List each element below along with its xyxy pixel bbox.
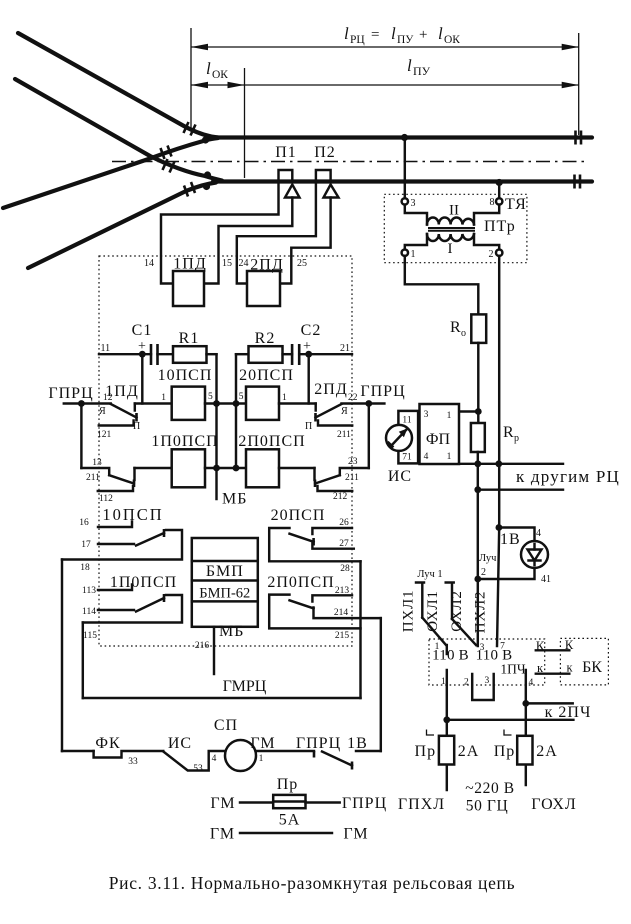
common bracket row4 left (pin 115): [83, 595, 182, 623]
svg-text:12: 12: [103, 393, 113, 403]
svg-text:C1: C1: [132, 322, 153, 339]
svg-text:БК: БК: [582, 659, 602, 676]
svg-text:2А: 2А: [458, 743, 480, 760]
common bracket row4 right: [269, 595, 360, 629]
junction dot frog A2: [204, 171, 211, 178]
contact t27: [312, 544, 353, 549]
svg-text:ГМ: ГМ: [250, 735, 275, 752]
svg-text:215: 215: [335, 631, 350, 641]
jumper pins 2-3: [472, 674, 494, 700]
contact t16: [98, 522, 132, 528]
contact 1ПД armature: [111, 404, 137, 418]
svg-text:К: К: [565, 638, 574, 652]
wire lamp branch: [499, 528, 535, 542]
svg-text:11: 11: [101, 343, 111, 354]
svg-text:ГОХЛ: ГОХЛ: [531, 796, 577, 813]
svg-text:ОХЛ1: ОХЛ1: [425, 590, 441, 631]
insulated joint on B2: [184, 182, 195, 197]
svg-text:211: 211: [337, 430, 351, 440]
svg-text:121: 121: [97, 430, 112, 440]
wire 20ПСП pin1 right: [279, 402, 316, 404]
svg-text:1: 1: [282, 393, 287, 403]
wire К-К 2: [536, 672, 570, 674]
resistor Ro: [471, 314, 486, 343]
svg-text:ГМ: ГМ: [343, 826, 368, 843]
rail connection П2 staple: [316, 170, 331, 181]
switch machine СП: [225, 740, 256, 771]
svg-text:ИС: ИС: [388, 468, 412, 485]
wire 1П0ПСП to buses to 2П0ПСП: [205, 467, 246, 469]
svg-text:114: 114: [82, 607, 96, 617]
svg-text:214: 214: [334, 608, 349, 618]
svg-text:5: 5: [239, 392, 244, 402]
svg-text:10ПСП: 10ПСП: [158, 367, 213, 384]
svg-text:27: 27: [339, 539, 349, 549]
row2: contact 10ПСП left: [81, 468, 109, 475]
svg-text:I: I: [448, 241, 453, 257]
svg-text:41: 41: [541, 574, 551, 585]
svg-text:71: 71: [402, 453, 412, 463]
svg-text:ГПРЦ: ГПРЦ: [360, 383, 405, 400]
svg-text:К: К: [536, 639, 545, 653]
winding II: [427, 218, 474, 225]
contact arm to pin 1: [422, 618, 446, 645]
svg-text:Я: Я: [341, 406, 348, 417]
wire pin11 to C1: [99, 353, 151, 355]
wire C2 column down: [307, 354, 309, 403]
svg-text:=: =: [371, 27, 379, 43]
svg-text:1В: 1В: [347, 735, 368, 752]
bus МБ2: [235, 354, 237, 468]
svg-text:ГПРЦ: ГПРЦ: [48, 385, 93, 402]
svg-text:к: к: [566, 661, 573, 675]
rail lower (converged track): [213, 179, 592, 183]
wire to 1П0ПСП: [135, 467, 172, 469]
svg-text:БМП: БМП: [206, 563, 244, 580]
fuse Пр 2А right: [517, 736, 532, 765]
contact 2ПД armature: [316, 404, 342, 418]
dimension line lОК: [191, 84, 245, 86]
contact t26: [312, 528, 352, 534]
svg-text:22: 22: [348, 393, 358, 403]
svg-text:1: 1: [441, 677, 446, 687]
svg-text:3: 3: [424, 410, 429, 420]
terminal 8: [496, 198, 502, 204]
wire ФП pin1 to node: [459, 410, 478, 412]
contact 1ПД front terminal: [134, 404, 136, 411]
svg-text:4: 4: [212, 754, 217, 764]
svg-text:П: П: [305, 421, 312, 432]
svg-text:20ПСП: 20ПСП: [239, 367, 294, 384]
wire C1 column down: [141, 354, 143, 403]
svg-text:1: 1: [411, 249, 416, 260]
svg-text:211: 211: [86, 473, 100, 483]
main rail B2 (lowest diagonal): [28, 183, 216, 269]
svg-text:ФК: ФК: [95, 735, 120, 752]
svg-text:26: 26: [339, 518, 349, 528]
svg-text:R: R: [450, 319, 462, 336]
wire row3-right common down to ГМРЦ wire: [359, 561, 361, 698]
wire 10ПСП to buses to 20ПСП: [205, 402, 246, 404]
svg-text:~220 В: ~220 В: [465, 780, 514, 797]
svg-text:ГМ: ГМ: [210, 826, 235, 843]
common bracket row3 right: [269, 528, 360, 561]
svg-text:112: 112: [99, 494, 113, 504]
svg-text:l: l: [438, 24, 443, 43]
common bracket row3 left (pin 18): [62, 530, 182, 560]
svg-text:1П0ПСП: 1П0ПСП: [110, 574, 177, 591]
insulated joint lower rail right end: [575, 175, 581, 189]
meter ИС: [386, 425, 412, 451]
svg-text:ОК: ОК: [444, 34, 460, 46]
svg-text:211: 211: [345, 473, 359, 483]
wire row4-left common down: [82, 623, 84, 699]
dimension line lРЦ: [191, 46, 579, 48]
wire П1 left leg to pin 14: [161, 182, 279, 284]
relay cabinet dotted enclosure: [99, 256, 352, 646]
meter ИС box: [398, 411, 418, 464]
wire ГПРЦ left down to row2: [80, 404, 82, 469]
main rail B1 (lower-left diagonal up to upper rail): [3, 138, 218, 208]
wire Ro to node: [477, 343, 479, 423]
node ГПРЦ right: [365, 400, 372, 407]
svg-text:2: 2: [464, 678, 469, 688]
wire pin4 down to fuse 2: [525, 670, 527, 785]
terminal 3: [402, 198, 408, 204]
svg-text:53: 53: [193, 764, 203, 774]
contact 1ПД back terminal 121: [99, 421, 134, 426]
wire СП to ГПРЦ contact: [256, 750, 314, 752]
wire C1 to R1: [158, 353, 174, 355]
svg-text:R1: R1: [179, 330, 200, 347]
svg-text:l: l: [407, 56, 412, 75]
winding I: [427, 234, 474, 241]
wire К-К 1: [536, 649, 570, 651]
svg-text:1: 1: [259, 754, 264, 764]
armature row3 left: [136, 533, 164, 546]
svg-text:2А: 2А: [536, 743, 558, 760]
svg-text:11: 11: [402, 416, 411, 426]
svg-text:2: 2: [489, 249, 494, 260]
svg-text:213: 213: [335, 586, 350, 596]
svg-text:+: +: [419, 27, 427, 43]
wire Rp down the feed bus: [477, 452, 479, 646]
armature row4 right: [290, 600, 314, 608]
junction dot frog B2: [203, 183, 210, 190]
svg-text:17: 17: [81, 540, 91, 550]
svg-text:БМП-62: БМП-62: [199, 586, 250, 602]
relay box БК dotted enclosure: [560, 638, 608, 685]
contact t114: [98, 609, 134, 611]
svg-text:к 2ПЧ: к 2ПЧ: [545, 704, 592, 721]
armature row3 right: [290, 534, 314, 542]
svg-text:ГМ: ГМ: [210, 795, 235, 812]
svg-text:ИС: ИС: [168, 735, 192, 752]
svg-text:212: 212: [333, 492, 348, 502]
rail upper (converged track): [210, 135, 592, 139]
back terminal 212: [318, 486, 353, 491]
resistor R2: [249, 346, 283, 363]
svg-text:23: 23: [348, 457, 358, 467]
svg-text:l: l: [391, 24, 396, 43]
svg-text:П2: П2: [314, 144, 336, 161]
svg-text:МБ: МБ: [219, 623, 244, 640]
wire lower rail tap to terminal 8: [498, 184, 500, 199]
contact t213: [312, 595, 352, 601]
node lamp branch: [496, 524, 503, 531]
svg-text:C2: C2: [301, 322, 322, 339]
bottom contact row wire left: [62, 750, 94, 752]
feeder ПХЛ1: [416, 583, 424, 618]
svg-text:113: 113: [82, 586, 96, 596]
rail connection П1 staple: [279, 170, 293, 181]
svg-text:5: 5: [208, 392, 213, 402]
svg-text:РЦ: РЦ: [350, 34, 365, 46]
track transformer dotted enclosure: [384, 194, 527, 262]
dimension line lПУ: [245, 84, 579, 86]
svg-text:l: l: [344, 24, 349, 43]
contact t113: [98, 585, 132, 591]
svg-text:Я: Я: [99, 406, 106, 417]
svg-text:ГПРЦ: ГПРЦ: [342, 795, 387, 812]
wire П2 left leg to pin 24: [237, 182, 316, 284]
branch rail A1 (upper-left diagonal): [18, 33, 218, 138]
svg-text:110 В: 110 В: [432, 648, 469, 664]
svg-text:ПУ: ПУ: [413, 64, 431, 78]
svg-text:ГПРЦ: ГПРЦ: [296, 735, 341, 752]
capacitor C2: [292, 344, 299, 365]
svg-text:ОК: ОК: [212, 69, 228, 81]
insulated joint on B1: [161, 146, 172, 160]
svg-text:к другим РЦ: к другим РЦ: [516, 467, 620, 486]
svg-text:16: 16: [79, 518, 89, 528]
junction dot frog upper: [202, 136, 209, 143]
svg-text:П1: П1: [275, 144, 297, 161]
svg-text:2ПД: 2ПД: [250, 257, 283, 274]
contact t17: [98, 543, 134, 545]
svg-text:о: о: [461, 328, 466, 339]
svg-text:R2: R2: [255, 330, 276, 347]
svg-text:2: 2: [481, 567, 486, 578]
node к 2ПЧ wire 2: [443, 716, 450, 723]
wire C2 to pin 21: [299, 353, 352, 355]
svg-text:ФП: ФП: [426, 431, 451, 448]
branch rail A2 (second upper-left diagonal, crosses to frog): [15, 79, 222, 181]
insulated joint upper rail right end: [576, 131, 582, 145]
МБ stub from БМП: [213, 627, 215, 674]
svg-text:2ПД: 2ПД: [314, 381, 347, 398]
relay block БМП/БМП-62: [192, 538, 258, 627]
node C2 column: [305, 351, 312, 358]
filter ФП: [420, 404, 460, 464]
svg-text:24: 24: [239, 258, 249, 269]
bus МБ1: [215, 354, 217, 499]
lamp 1В: [521, 541, 548, 568]
wire R1 to bus МБ1: [207, 353, 217, 355]
contact front terminal row2 left: [133, 468, 135, 480]
svg-text:50 ГЦ: 50 ГЦ: [466, 798, 509, 815]
svg-text:р: р: [514, 433, 519, 444]
contact 2ПД front terminal: [314, 404, 316, 411]
terminal 2: [496, 250, 502, 256]
node beam junction: [474, 576, 481, 583]
contact 10ПСП armature row2: [109, 475, 134, 483]
svg-text:1В: 1В: [500, 531, 521, 548]
wire terminal 1 to Ro: [405, 256, 479, 315]
svg-text:4: 4: [529, 678, 534, 688]
svg-text:Луч 1: Луч 1: [417, 569, 442, 580]
svg-text:1: 1: [447, 452, 452, 462]
armature row4 left: [136, 598, 164, 612]
svg-text:2П0ПСП: 2П0ПСП: [238, 433, 305, 450]
wire row3-left common down: [61, 560, 63, 752]
contact ФК (closed bridge): [94, 751, 164, 758]
wire ГПРЦ row1 left: [64, 402, 111, 404]
winding I connection wires: [405, 234, 499, 250]
svg-text:1П0ПСП: 1П0ПСП: [151, 433, 218, 450]
svg-text:5А: 5А: [279, 812, 301, 829]
svg-text:1: 1: [447, 411, 452, 421]
wire upper rail tap to terminal 3: [404, 139, 406, 199]
svg-text:115: 115: [83, 631, 97, 641]
svg-text:28: 28: [340, 564, 350, 574]
svg-text:ПХЛ1: ПХЛ1: [401, 590, 417, 633]
svg-text:ПУ: ПУ: [397, 34, 414, 46]
wire pin1 down to fuse 1: [446, 670, 448, 790]
svg-text:l: l: [206, 59, 211, 78]
svg-text:Пр: Пр: [277, 776, 299, 793]
svg-text:216: 216: [195, 641, 210, 651]
wire ФП bottom to feed bus / к другим РЦ 1: [459, 463, 563, 465]
rail connection П2 arrow: [324, 185, 339, 198]
svg-text:15: 15: [222, 258, 232, 269]
transducer 1ПД: [173, 271, 204, 306]
terminal 1: [402, 250, 408, 256]
svg-text:8: 8: [490, 197, 495, 208]
wire lamp return: [478, 568, 535, 579]
svg-text:33: 33: [128, 757, 138, 767]
svg-text:ПТр: ПТр: [484, 218, 516, 235]
wire к другим РЦ 2: [478, 488, 563, 490]
svg-text:2П0ПСП: 2П0ПСП: [267, 574, 334, 591]
contact arm to pin 3: [452, 619, 476, 645]
svg-text:к: к: [537, 661, 544, 675]
svg-text:3: 3: [411, 198, 416, 209]
resistor Rp: [471, 423, 485, 452]
node C1/contact column: [139, 351, 146, 358]
svg-text:1ПД: 1ПД: [173, 256, 206, 273]
contact 2ПД back terminal 211: [318, 421, 352, 426]
svg-text:1: 1: [161, 393, 166, 403]
svg-text:СП: СП: [214, 717, 238, 734]
back terminal 112: [98, 486, 133, 491]
svg-text:3: 3: [485, 676, 490, 686]
transformer box 110В dotted enclosure: [429, 639, 545, 685]
svg-text:Рис. 3.11. Нормально-разомкнут: Рис. 3.11. Нормально-разомкнутая рельсов…: [109, 873, 516, 893]
svg-text:R: R: [503, 424, 515, 441]
pin stubs into 110В box: [446, 645, 448, 654]
svg-text:Пр: Пр: [494, 743, 516, 760]
wire row1 right: [342, 402, 385, 404]
dimension extension line at right rail end: [578, 33, 580, 135]
transformer core: [428, 228, 475, 231]
wire bus МБ2 to R2: [236, 353, 249, 355]
winding II connection wires: [405, 205, 499, 225]
wire ГМРЦ horizontal: [83, 697, 361, 699]
insulated joint on A1: [184, 122, 196, 136]
svg-text:25: 25: [297, 258, 307, 269]
transducer 2ПД: [247, 271, 280, 306]
node ФП pin1 top: [475, 408, 482, 415]
row2 right contact 20ПСП: [340, 468, 369, 475]
insulated joint on A2: [163, 159, 175, 173]
contact ИС: [163, 751, 225, 771]
svg-text:Луч: Луч: [479, 553, 497, 564]
svg-text:1ПЧ: 1ПЧ: [500, 662, 525, 677]
node к 2ПЧ wire 1: [522, 700, 529, 707]
svg-text:18: 18: [80, 563, 90, 573]
svg-text:II: II: [449, 203, 459, 219]
svg-text:МБ: МБ: [222, 491, 247, 508]
wire terminal 2 down (beam 2 bus): [497, 256, 499, 646]
svg-text:Пр: Пр: [415, 743, 437, 760]
svg-text:13: 13: [92, 458, 102, 468]
svg-text:21: 21: [340, 343, 350, 354]
fuse Пр 2А left: [439, 736, 454, 765]
dimension extension line at first joint: [190, 28, 192, 128]
svg-text:20ПСП: 20ПСП: [271, 507, 326, 524]
wire R2 to C2: [283, 353, 293, 355]
junction dot upper rail at transformer tap: [401, 134, 408, 141]
wire front to 10ПСП pin1: [135, 402, 172, 404]
svg-text:14: 14: [144, 258, 154, 269]
feeder ОХЛ1: [446, 583, 454, 619]
wire П2 arrow to pin 25: [280, 198, 331, 284]
junction dot lower rail at transformer tap: [496, 179, 503, 186]
svg-text:ПХЛ2: ПХЛ2: [473, 591, 489, 634]
contact t214 wire to right drop: [314, 608, 381, 619]
node ГПРЦ left: [78, 400, 85, 407]
capacitor C1: [151, 344, 158, 365]
svg-text:ТЯ: ТЯ: [505, 196, 527, 213]
svg-text:4: 4: [536, 528, 541, 539]
svg-text:ГПХЛ: ГПХЛ: [398, 796, 445, 813]
rail connection П1 arrow: [285, 185, 300, 198]
track centerline: [112, 161, 589, 163]
svg-text:ОХЛ2: ОХЛ2: [449, 590, 465, 631]
wire П1 arrow to pin 15: [204, 198, 292, 284]
wire ГПРЦ right down to row2: [368, 404, 370, 469]
resistor R1: [173, 346, 207, 363]
svg-text:4: 4: [424, 452, 429, 462]
wire t214 drop to bottom row: [380, 618, 382, 751]
svg-text:ГМРЦ: ГМРЦ: [223, 678, 267, 695]
dimension extension line at lОК boundary: [244, 68, 246, 178]
